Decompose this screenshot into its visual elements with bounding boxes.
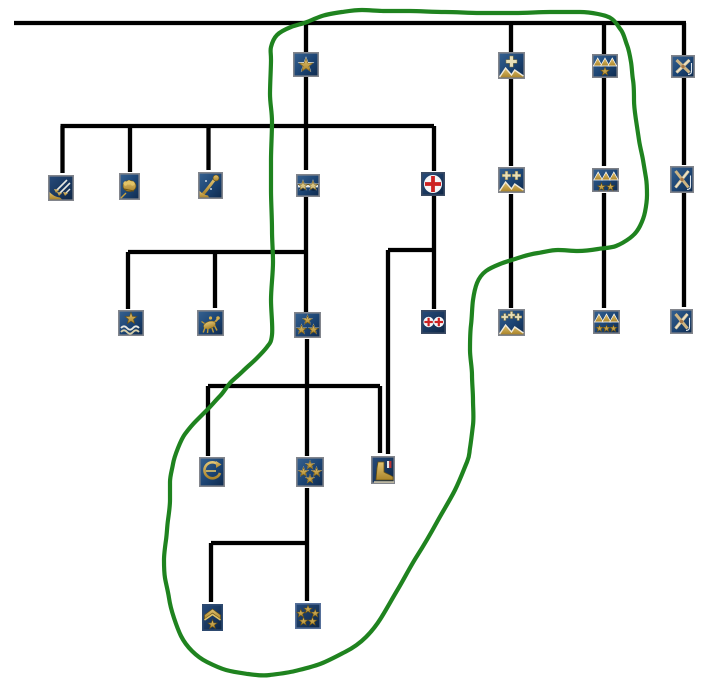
badge U5 triple-arrows (48, 175, 74, 201)
badge U24 five-stars (295, 603, 321, 629)
wire U10 to U17 vertical (509, 194, 513, 308)
badge U16 twin-red-cross (421, 310, 446, 334)
wire branch drop to U22 boot second (378, 386, 382, 453)
wire tier-2 branch bus (61, 124, 435, 128)
badge U11 tents-two-stars (592, 168, 619, 192)
badge U10 two-crosses-camp (498, 167, 525, 193)
badge U12 crossed-daggers-2 (670, 166, 694, 193)
wire U2 to U10 vertical (509, 79, 513, 166)
wire branch drop to U7 horn (206, 126, 210, 170)
badge U7 war-horn (198, 172, 223, 199)
badge U9 red-cross-shield (421, 172, 445, 196)
wire tier-3 branch bus (128, 250, 306, 254)
badge U19 crossed-daggers-3 (670, 309, 693, 334)
wire U1 to tier-2 branch (304, 77, 308, 126)
wire tier-5 branch bus (211, 541, 307, 545)
wire branch drop to U5 arrows (60, 126, 64, 173)
wire drop to U1 star-1 (304, 23, 308, 53)
badge U20 cycle-arrow (199, 457, 225, 487)
badge U21 four-stars (296, 457, 324, 487)
wire tier-4 branch bus (208, 384, 380, 388)
badge U2 cross-over-camp (498, 52, 525, 79)
wire U21 to U24 stars-5 vertical (305, 488, 309, 601)
badge U1 general-one-star (293, 52, 319, 77)
wire U9 to U16 redcross-2 vertical (432, 196, 436, 309)
wire branch drop to U8 stars-2 (304, 126, 308, 170)
wire corner drop to U4 swords-1 (682, 23, 686, 56)
wire U12 to U19 vertical (682, 193, 686, 307)
badge U14 horseman (197, 310, 224, 336)
wire long drop to U22 boot (386, 250, 390, 454)
badge U13 star-over-waves (118, 310, 144, 336)
badge U23 chevron-star (202, 604, 223, 631)
wire U3 to U11 vertical (602, 78, 606, 166)
wire branch drop to U13 star-waves (126, 252, 130, 309)
badge U4 crossed-daggers-1 (671, 55, 695, 78)
badge U17 three-crosses-camp (498, 309, 525, 336)
wire U8 to U15 stars-3 vertical (304, 196, 308, 312)
badge U6 gauntlet-fist (119, 173, 140, 200)
wire U11 to U18 vertical (602, 193, 606, 308)
wire U4 to U12 vertical (682, 78, 686, 165)
wire drop to U3 tents-1 (602, 23, 606, 55)
wire U15 to tier-4 vertical (305, 339, 309, 456)
badge U15 three-stars (294, 312, 321, 338)
badge U18 tents-three-stars (593, 310, 620, 334)
wire branch drop to U9 redcross (432, 126, 436, 171)
wire branch drop to U20 cycle-arrow (206, 386, 210, 456)
wire branch drop to U14 horseman (213, 252, 217, 308)
wire drop to U2 cross-camp-1 (509, 23, 513, 53)
badge U22 marching-boot (371, 456, 395, 484)
wire tap branch to boot (388, 248, 434, 252)
green selection loop (164, 10, 647, 675)
wire top bus (14, 21, 686, 25)
badge U3 tents-one-star (592, 54, 618, 78)
wire branch drop to U6 fist (128, 126, 132, 172)
wire branch drop to U23 chevrons (209, 543, 213, 602)
badge U8 two-stars (296, 174, 320, 197)
